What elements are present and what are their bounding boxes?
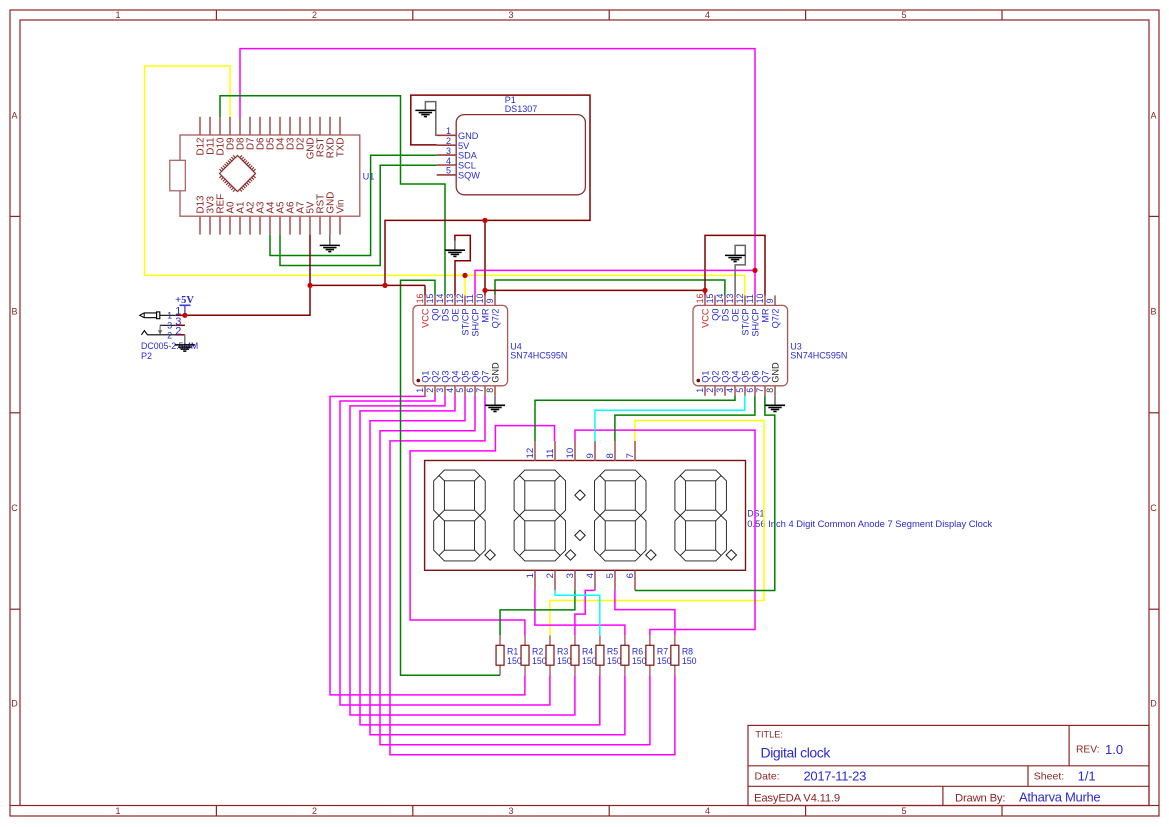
- U4 pin 2 stub: [434, 386, 436, 396]
- svg-text:R7: R7: [657, 646, 668, 656]
- U4 pin 4 stub: [454, 386, 456, 396]
- svg-text:SN74HC595N: SN74HC595N: [790, 351, 847, 361]
- svg-text:9: 9: [585, 453, 596, 458]
- DS1 pin 12 stub top: [534, 441, 536, 461]
- svg-text:5: 5: [605, 573, 616, 578]
- DS1 digit 3 seven-segment: [595, 470, 647, 561]
- P1 pin 4 SCL: [437, 164, 457, 166]
- svg-text:5V: 5V: [458, 141, 470, 151]
- svg-text:Q6: Q6: [751, 371, 761, 383]
- svg-text:R8: R8: [682, 646, 693, 656]
- svg-text:Q3: Q3: [721, 371, 731, 383]
- U1 pin bottom 5V: [309, 216, 311, 234]
- U1 pin bottom D13: [199, 216, 201, 234]
- junction +5V rail / U1 5V: [307, 283, 312, 288]
- svg-text:150: 150: [532, 656, 547, 666]
- wire magenta U4 pin4 to R5 bottom: [360, 396, 600, 725]
- U3 pin 13 stub: [734, 295, 736, 305]
- DS1 digit 1 seven-segment: [434, 470, 486, 561]
- svg-text:DS: DS: [441, 309, 451, 322]
- svg-text:TITLE:: TITLE:: [755, 730, 783, 740]
- U3 pin 15 stub: [714, 295, 716, 305]
- P2 pin 1 line: [160, 314, 176, 316]
- svg-text:Vin: Vin: [336, 200, 347, 214]
- U1 pin top D6: [259, 117, 261, 135]
- U1 pin top D12: [199, 117, 201, 135]
- svg-text:DC005-2.5MM: DC005-2.5MM: [141, 341, 198, 351]
- U1 pin top D2: [299, 117, 301, 135]
- svg-text:9: 9: [765, 298, 775, 303]
- svg-text:8: 8: [485, 388, 495, 393]
- wire magenta U4 pin2 to R3 bottom: [340, 396, 550, 705]
- svg-text:Digital clock: Digital clock: [761, 745, 832, 761]
- svg-text:VCC: VCC: [701, 308, 711, 328]
- resistor R8: [674, 635, 676, 645]
- U1 pin bottom A2: [249, 216, 251, 234]
- P1 pin 5 SQW: [437, 174, 457, 176]
- svg-text:5: 5: [735, 388, 745, 393]
- svg-text:A: A: [1150, 111, 1156, 121]
- DS1 pin 4 stub bottom: [594, 571, 596, 591]
- U1 pin top D3: [289, 117, 291, 135]
- U1 pin top D11: [209, 117, 211, 135]
- U3 pin 3 stub: [724, 386, 726, 396]
- DS1 colon upper dot: [575, 490, 585, 500]
- svg-text:8: 8: [765, 388, 775, 393]
- P2 pin 2 stub: [175, 334, 185, 336]
- svg-text:5: 5: [446, 166, 451, 176]
- svg-text:3: 3: [167, 320, 172, 330]
- P2 pin 3 stub: [176, 324, 185, 326]
- svg-text:16: 16: [695, 294, 705, 304]
- svg-text:Q1: Q1: [701, 371, 711, 383]
- svg-text:Atharva Murhe: Atharva Murhe: [1019, 790, 1100, 805]
- U4 pin 5 stub: [464, 386, 466, 396]
- svg-text:GND: GND: [458, 131, 479, 141]
- U4 pin 9 stub: [494, 295, 496, 305]
- svg-text:TXD: TXD: [336, 138, 347, 158]
- svg-text:Date:: Date:: [755, 771, 780, 783]
- DS1 pin 6 stub bottom: [634, 571, 636, 591]
- svg-text:3: 3: [508, 806, 513, 816]
- U1 pin top D10: [219, 117, 221, 135]
- U4 pin 11 stub: [474, 295, 476, 305]
- U3 pin 6 stub: [754, 386, 756, 396]
- svg-text:13: 13: [445, 294, 455, 304]
- svg-text:MR: MR: [481, 308, 491, 323]
- svg-text:MR: MR: [761, 308, 771, 323]
- svg-text:DS1307: DS1307: [505, 104, 538, 114]
- ground symbol at U4 pin8: [485, 405, 505, 411]
- U3 pin 11 stub: [754, 295, 756, 305]
- svg-text:6: 6: [625, 573, 636, 578]
- resistor R2: [524, 635, 526, 645]
- svg-text:3: 3: [435, 388, 445, 393]
- svg-text:15: 15: [425, 294, 435, 304]
- svg-text:11: 11: [545, 449, 556, 459]
- wire magenta DS1 pin1 to R6 top: [535, 590, 625, 635]
- svg-text:7: 7: [475, 388, 485, 393]
- svg-text:10: 10: [475, 294, 485, 304]
- DS1 digit 2 decimal point: [565, 550, 575, 560]
- wire green D10 to U4 pin14 DS: [220, 96, 445, 296]
- wire gray U1 GND to ground: [329, 235, 331, 246]
- ground symbol at P2: [175, 345, 195, 351]
- mcu U1 Arduino Nano body: [180, 135, 360, 216]
- svg-text:3: 3: [446, 146, 451, 156]
- U1 usb connector box: [170, 160, 186, 191]
- svg-text:ST/CP: ST/CP: [741, 309, 751, 336]
- svg-text:U1: U1: [363, 171, 375, 181]
- P1 pin 1 GND: [437, 134, 457, 136]
- resistor R7: [649, 635, 651, 645]
- U3 pin 1 stub: [704, 386, 706, 396]
- U1 pin bottom 3V3: [209, 216, 211, 234]
- U4 pin 14 stub: [444, 295, 446, 305]
- svg-text:2: 2: [167, 330, 172, 340]
- wire magenta U4 pin1 to R2 bottom: [330, 396, 525, 695]
- svg-text:Q2: Q2: [711, 371, 721, 383]
- U4 pin 7 stub: [484, 386, 486, 396]
- svg-text:Q4: Q4: [451, 371, 461, 383]
- junction magenta at U3 pin11: [752, 268, 757, 273]
- DS1 pin 1 stub bottom: [534, 571, 536, 591]
- svg-text:150: 150: [632, 656, 647, 666]
- svg-text:150: 150: [582, 656, 597, 666]
- module P1 DS1307 body: [456, 115, 585, 195]
- wire yellow D9 to U3 pin12: [145, 66, 745, 295]
- svg-text:Drawn By:: Drawn By:: [955, 793, 1005, 805]
- svg-text:4: 4: [446, 156, 451, 166]
- U3 pin 5 stub: [744, 386, 746, 396]
- svg-text:12: 12: [525, 448, 536, 459]
- svg-text:D: D: [1150, 699, 1157, 709]
- svg-text:1: 1: [115, 10, 120, 20]
- svg-text:2: 2: [312, 10, 317, 20]
- svg-text:7: 7: [755, 388, 765, 393]
- resistor R4: [574, 635, 576, 645]
- svg-text:Q7: Q7: [761, 371, 771, 383]
- svg-text:14: 14: [715, 294, 725, 304]
- wire magenta U4 pin3 to R4 bottom: [350, 396, 575, 715]
- U1 pin bottom A1: [239, 216, 241, 234]
- DS1 pin 8 stub top: [614, 441, 616, 461]
- U3 pin 2 stub: [714, 386, 716, 396]
- svg-text:R4: R4: [582, 646, 593, 656]
- wire magenta DS1 pin4 to R4 top: [575, 590, 595, 635]
- svg-text:1/1: 1/1: [1078, 769, 1096, 784]
- svg-text:R5: R5: [607, 646, 618, 656]
- wire yellow branch to U4 pin12: [464, 275, 466, 295]
- junction yellow at U4 pin12: [462, 273, 467, 278]
- U3 pin 7 stub: [764, 386, 766, 396]
- svg-text:Sheet:: Sheet:: [1034, 771, 1064, 783]
- P2 pin 3 line: [160, 324, 176, 326]
- wire +5V rail to U3: [485, 289, 705, 291]
- U1 pin top D5: [269, 117, 271, 135]
- svg-text:GND: GND: [771, 362, 781, 383]
- junction +5V rail branch: [382, 283, 387, 288]
- svg-text:SH/CP: SH/CP: [751, 309, 761, 337]
- wire green U3 pin7 to DS1 pin6: [635, 396, 775, 591]
- U1 pin top RXD: [329, 117, 331, 135]
- U1 pin bottom RST: [319, 216, 321, 234]
- wire cyan U3 pin5 to DS1 pin9: [595, 396, 745, 441]
- svg-text:150: 150: [657, 656, 672, 666]
- svg-text:EasyEDA V4.11.9: EasyEDA V4.11.9: [754, 793, 840, 805]
- wire magenta DS1 pin10 to R7 top: [575, 430, 755, 635]
- U1 pin bottom Vin: [339, 216, 341, 234]
- ground symbol at U4 OE: [445, 250, 465, 256]
- U1 pin top D9: [229, 117, 231, 135]
- svg-text:10: 10: [755, 294, 765, 304]
- shift register U3 SN74HC595N body: [693, 305, 788, 385]
- svg-text:6: 6: [745, 388, 755, 393]
- svg-text:5: 5: [901, 806, 906, 816]
- svg-text:3: 3: [508, 10, 513, 20]
- svg-text:5: 5: [901, 10, 906, 20]
- svg-text:A: A: [11, 111, 17, 121]
- svg-text:B: B: [1150, 307, 1156, 317]
- wire +5V rail to U4 pin16: [310, 284, 425, 286]
- wire green U3 pin4 to DS1 pin12: [535, 396, 735, 441]
- svg-text:Q3: Q3: [441, 371, 451, 383]
- U1 chip silkscreen diamond: [220, 156, 256, 192]
- svg-text:4: 4: [705, 806, 710, 816]
- U3 pin 9 stub: [774, 295, 776, 305]
- svg-text:2: 2: [312, 806, 317, 816]
- junction +5V upper rail: [482, 218, 487, 223]
- wire +5V jack to rail: [185, 285, 310, 315]
- svg-text:D: D: [11, 699, 18, 709]
- svg-text:1: 1: [115, 806, 120, 816]
- junction +5V at P2: [182, 313, 187, 318]
- DS1 digit 3 decimal point: [646, 550, 656, 560]
- svg-text:1: 1: [415, 388, 425, 393]
- svg-text:15: 15: [705, 294, 715, 304]
- svg-text:OE: OE: [731, 309, 741, 322]
- U1 pin top GND: [309, 117, 311, 135]
- junction +5V at U3 pin16: [702, 288, 707, 293]
- svg-text:Q1: Q1: [421, 371, 431, 383]
- U4 pin 16 stub: [424, 295, 426, 305]
- svg-text:4: 4: [725, 388, 735, 393]
- U3 pin 8 stub: [774, 386, 776, 396]
- wire gray P1 GND pin to ground: [425, 102, 436, 136]
- U4 pin 12 stub: [464, 295, 466, 305]
- P2 ground wire: [184, 335, 186, 345]
- net flag +5V: [184, 305, 186, 315]
- ground symbol at U1 GND: [320, 245, 340, 251]
- U4 pin 1 stub: [424, 386, 426, 396]
- svg-text:SQW: SQW: [458, 171, 480, 181]
- wire green DS1 pin3 to R1 top: [500, 590, 575, 635]
- wire U3 pin13 OE to ground: [735, 245, 745, 295]
- svg-text:1: 1: [446, 126, 451, 136]
- wire +5V drop to U4 pin10 MR: [484, 220, 486, 295]
- svg-text:Q0: Q0: [431, 309, 441, 321]
- wire magenta DS1 pin5 to R8 top: [615, 590, 675, 635]
- svg-text:3: 3: [565, 573, 576, 578]
- junction +5V at U4 pin10: [482, 288, 487, 293]
- svg-text:Q5: Q5: [461, 371, 471, 383]
- DS1 pin 2 stub bottom: [554, 571, 556, 591]
- U4 pin 10 stub: [484, 295, 486, 305]
- U1 pin top D4: [279, 117, 281, 135]
- wire green U4 pin9 Q7/2 to U3 pin14 DS: [495, 280, 725, 295]
- svg-text:2: 2: [545, 573, 556, 578]
- svg-text:GND: GND: [491, 362, 501, 383]
- U1 pin bottom A6: [289, 216, 291, 234]
- wire green U4 pin15 Q0 to R1 bottom: [401, 280, 501, 675]
- svg-text:Q7: Q7: [481, 371, 491, 383]
- U4 pin 3 stub: [444, 386, 446, 396]
- wire cyan DS1 pin2 to R5 top: [555, 590, 600, 635]
- svg-text:C: C: [1150, 503, 1157, 513]
- U1 pin top D7: [249, 117, 251, 135]
- DS1 pin 11 stub top: [554, 441, 556, 461]
- svg-text:2: 2: [175, 326, 181, 338]
- svg-text:6: 6: [465, 388, 475, 393]
- wire gray U4 pin8 GND: [494, 396, 496, 406]
- svg-text:Q5: Q5: [741, 371, 751, 383]
- svg-text:10: 10: [565, 448, 576, 459]
- svg-text:1: 1: [695, 388, 705, 393]
- svg-text:150: 150: [507, 656, 522, 666]
- svg-text:SN74HC595N: SN74HC595N: [510, 351, 567, 361]
- svg-text:13: 13: [725, 294, 735, 304]
- U4 pin 8 stub: [494, 386, 496, 396]
- svg-text:3: 3: [715, 388, 725, 393]
- U3 pin 14 stub: [724, 295, 726, 305]
- wire green A5 to P1 SCL: [280, 165, 437, 265]
- wire magenta branch to U4 pin11: [475, 270, 755, 295]
- svg-text:150: 150: [557, 656, 572, 666]
- svg-text:4: 4: [585, 572, 596, 578]
- DS1 digit 1 decimal point: [485, 550, 495, 560]
- wire green U3 pin6 to DS1 pin8: [615, 396, 755, 441]
- ground symbol at U3 OE: [725, 255, 745, 261]
- svg-text:2: 2: [446, 136, 451, 146]
- wire +5V U3 pin16 loop to pin10 MR: [705, 235, 765, 295]
- svg-text:1.0: 1.0: [1105, 742, 1123, 757]
- svg-text:2: 2: [705, 388, 715, 393]
- DS1 digit 2 seven-segment: [514, 470, 566, 561]
- svg-text:1: 1: [167, 310, 172, 320]
- DS1 pin 7 stub top: [634, 441, 636, 461]
- svg-text:150: 150: [607, 656, 622, 666]
- svg-text:5: 5: [455, 388, 465, 393]
- wire +5V up to U1 5V pin: [309, 235, 311, 286]
- DS1 pin 3 stub bottom: [574, 571, 576, 591]
- svg-text:7: 7: [625, 453, 636, 458]
- svg-text:12: 12: [735, 294, 745, 304]
- connector P2 DC005 jack plug symbol: [140, 313, 157, 318]
- resistor R6: [624, 635, 626, 645]
- wire +5V drop U4 pin16: [424, 285, 426, 295]
- svg-text:Q6: Q6: [471, 371, 481, 383]
- svg-text:1: 1: [525, 573, 536, 578]
- svg-text:14: 14: [435, 294, 445, 304]
- U4 pin 6 stub: [474, 386, 476, 396]
- svg-text:11: 11: [745, 294, 755, 303]
- U1 pin bottom GND: [329, 216, 331, 234]
- DS1 pin 5 stub bottom: [614, 571, 616, 591]
- U1 pin bottom REF: [219, 216, 221, 234]
- svg-text:C: C: [11, 503, 18, 513]
- wire U4 pin13 OE to ground: [455, 235, 470, 295]
- U3 pin 12 stub: [744, 295, 746, 305]
- P2 pin 3 switch arrow: [159, 325, 161, 330]
- svg-text:SH/CP: SH/CP: [471, 309, 481, 337]
- resistor R5: [599, 635, 601, 645]
- wire yellow DS1 pin7 to R3: [550, 421, 764, 636]
- display DS1 body: [425, 461, 746, 571]
- P1 pin 2 5V: [437, 144, 457, 146]
- svg-text:DS1: DS1: [747, 508, 764, 518]
- ground symbol at P1: [415, 110, 435, 116]
- DS1 digit 4 seven-segment: [675, 470, 727, 561]
- U4 pin 13 stub: [454, 295, 456, 305]
- svg-text:+5V: +5V: [175, 295, 194, 306]
- svg-text:B: B: [11, 307, 17, 317]
- svg-text:REV:: REV:: [1076, 745, 1100, 756]
- svg-text:Q2: Q2: [431, 371, 441, 383]
- svg-text:Q4: Q4: [731, 371, 741, 383]
- DS1 colon lower dot: [575, 530, 585, 540]
- svg-text:2017-11-23: 2017-11-23: [804, 769, 867, 784]
- svg-text:150: 150: [682, 656, 697, 666]
- wire magenta U4 pin7 to R8 bottom: [390, 396, 675, 755]
- P1 pin 3 SDA: [437, 154, 457, 156]
- wire green A4 to P1 SDA: [270, 155, 437, 255]
- U1 pin bottom A0: [229, 216, 231, 234]
- svg-text:9: 9: [485, 298, 495, 303]
- wire +5V loop to P1 5V pin: [385, 95, 590, 285]
- svg-text:Q7/2: Q7/2: [491, 309, 501, 329]
- U1 pin bottom A7: [299, 216, 301, 234]
- svg-text:OE: OE: [451, 309, 461, 322]
- U1 pin top D8: [239, 117, 241, 135]
- svg-text:0.56 Inch 4 Digit Common Anode: 0.56 Inch 4 Digit Common Anode 7 Segment…: [747, 518, 992, 529]
- svg-text:P2: P2: [141, 351, 152, 361]
- svg-text:8: 8: [605, 453, 616, 458]
- svg-text:SCL: SCL: [458, 161, 476, 171]
- wire magenta DS1 pin11 to R2 top: [410, 426, 554, 636]
- U3 pin 4 stub: [734, 386, 736, 396]
- ground stem U4 OE: [454, 241, 456, 251]
- U3 pin 16 stub: [704, 295, 706, 305]
- svg-text:11: 11: [465, 294, 475, 303]
- title block: [748, 725, 1149, 805]
- svg-text:Q0: Q0: [711, 309, 721, 321]
- svg-text:4: 4: [705, 10, 710, 20]
- svg-text:2: 2: [425, 388, 435, 393]
- wire magenta D8 to U3 pin11: [240, 49, 755, 296]
- wire magenta U4 pin6 to R7 bottom: [380, 396, 650, 745]
- svg-text:Q7/2: Q7/2: [771, 309, 781, 329]
- P2 pin 1 stub: [176, 314, 185, 316]
- svg-text:R6: R6: [632, 646, 643, 656]
- U1 pin top RST: [319, 117, 321, 135]
- shift register U4 SN74HC595N body: [413, 305, 508, 385]
- svg-text:R2: R2: [532, 646, 543, 656]
- U3 pin 10 stub: [764, 295, 766, 305]
- DS1 digit 4 decimal point: [726, 550, 736, 560]
- svg-text:DS: DS: [721, 309, 731, 322]
- svg-text:ST/CP: ST/CP: [461, 309, 471, 336]
- svg-text:12: 12: [455, 294, 465, 304]
